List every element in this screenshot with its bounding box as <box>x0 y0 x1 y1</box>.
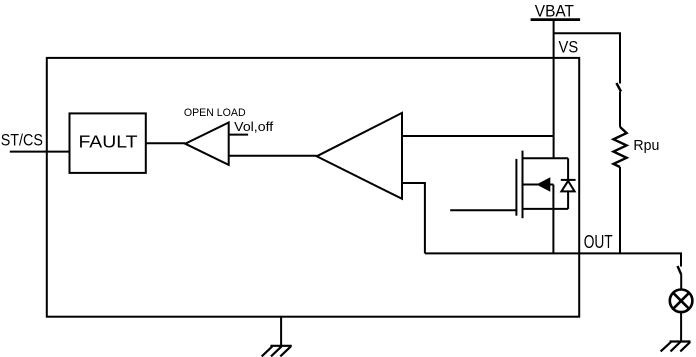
wire S2 to lamp <box>680 275 682 290</box>
wire ST/CS input <box>10 151 70 153</box>
wire Rpu to OUT <box>619 167 621 253</box>
svg-text:ST/CS: ST/CS <box>1 131 43 150</box>
transistor Q1 DMOS <box>516 151 568 219</box>
switch S1 <box>616 83 621 92</box>
body diode D1 <box>561 158 576 209</box>
FAULT block <box>70 113 146 172</box>
wire FAULT output <box>146 142 185 144</box>
svg-text:VBAT: VBAT <box>535 1 574 20</box>
Q1 channel bar <box>522 151 524 219</box>
wire OUT <box>425 253 681 266</box>
wire A2 lower output to OUT <box>402 183 425 253</box>
svg-text:OPEN LOAD: OPEN LOAD <box>184 107 246 119</box>
wire A2 upper output to VS rail <box>402 135 554 137</box>
wire lamp to ground <box>680 312 682 341</box>
ground GND2 lamp <box>661 342 691 352</box>
wire Q1 source to OUT <box>552 185 554 254</box>
wire gate lead <box>450 209 516 211</box>
Q1 source stub <box>523 208 569 210</box>
wire A1 to A2 <box>229 155 317 157</box>
svg-text:Rpu: Rpu <box>633 137 659 154</box>
buffer A1 open-load comparator <box>185 123 229 165</box>
Vol,off stub <box>229 134 248 136</box>
resistor Rpu <box>614 127 627 167</box>
Q1 gate bar <box>515 159 517 216</box>
driver A2 <box>317 113 402 199</box>
wire S1 to Rpu <box>619 92 621 127</box>
lamp L1 <box>670 290 693 313</box>
IC block outline U1 <box>47 58 579 317</box>
svg-text:OUT: OUT <box>584 232 613 252</box>
ground GND1 IC <box>262 346 292 357</box>
svg-text:VS: VS <box>559 38 579 57</box>
VBAT supply bar <box>531 18 581 21</box>
wire VS rail to Q1 drain <box>553 20 555 159</box>
wire VBAT branch to Rpu <box>554 33 620 83</box>
wire IC to ground <box>280 317 282 346</box>
Q1 body stub with arrow <box>523 184 554 186</box>
svg-text:FAULT: FAULT <box>79 132 138 152</box>
switch S2 <box>678 266 682 275</box>
svg-text:Vol,off: Vol,off <box>234 120 274 134</box>
Q1 drain stub <box>523 157 569 159</box>
